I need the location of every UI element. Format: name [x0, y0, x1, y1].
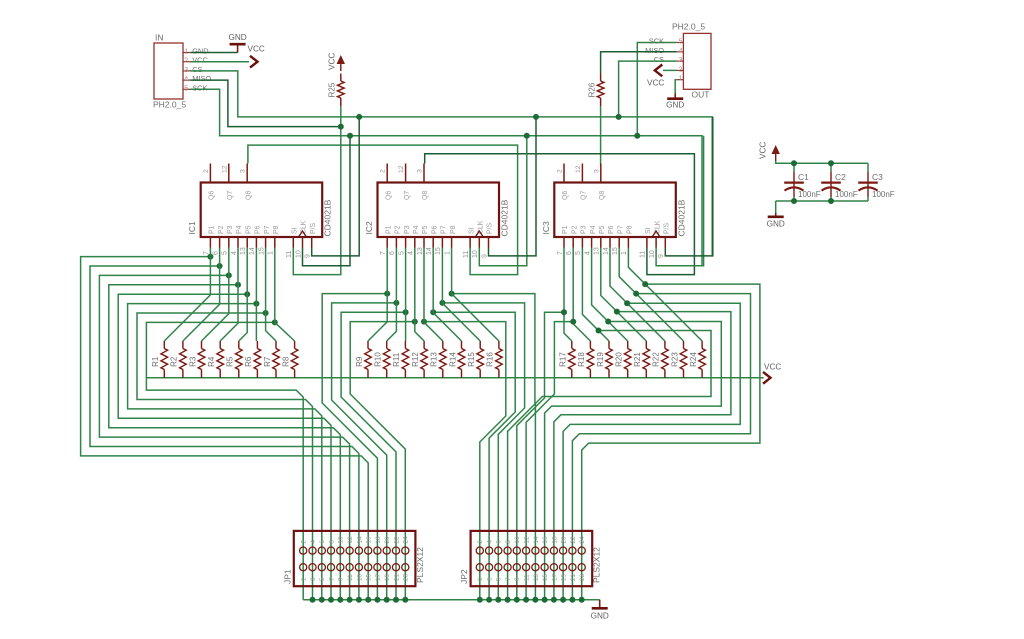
IC2 pin 11 SI [469, 237, 471, 248]
junction dot IC1 P2 [217, 263, 223, 269]
IC1 pin 14 P6 [255, 237, 257, 248]
svg-text:R1: R1 [151, 356, 160, 367]
svg-text:P6: P6 [608, 225, 615, 234]
svg-text:P2: P2 [571, 225, 578, 234]
svg-text:IN: IN [155, 33, 164, 43]
svg-text:100nF: 100nF [835, 190, 858, 199]
svg-text:P2: P2 [218, 225, 225, 234]
JP1 pin 22 / pin 21 [392, 547, 399, 554]
svg-text:R15: R15 [467, 352, 476, 367]
IC1 pin 7 P1 [209, 237, 211, 248]
junction dot IC2 P3 [403, 309, 409, 315]
svg-text:2: 2 [380, 169, 387, 173]
connector IN (PH2.0_5) [154, 43, 183, 99]
wire IC3 P1 row to JP2 col5 [517, 312, 564, 599]
IC1 pin 9 P/S [311, 237, 313, 248]
svg-text:Q7: Q7 [404, 191, 411, 200]
svg-text:9: 9 [658, 254, 665, 258]
svg-text:PH2.0_5: PH2.0_5 [672, 22, 705, 32]
IC3 CD4021B body [554, 183, 676, 238]
svg-text:P/S: P/S [487, 222, 494, 234]
wire R26 -> IC3 Q8 [600, 106, 602, 163]
svg-text:11: 11 [640, 251, 647, 258]
resistor R19 [608, 341, 610, 349]
IC2 pin 6 P2 [395, 237, 397, 248]
wire CLK IC3 -> line C (SCK) [656, 136, 704, 266]
junction dot IC1 P8 [272, 319, 278, 325]
svg-text:R20: R20 [615, 352, 624, 367]
svg-text:13: 13 [240, 247, 247, 255]
junction dot IC2 P8 [449, 291, 455, 297]
JP1 pin 16 / pin 15 [365, 547, 372, 554]
svg-text:24: 24 [579, 536, 586, 544]
IC1 pin 13 P5 [246, 237, 248, 248]
ground symbol at IN [237, 44, 239, 52]
IC2 pin 9 P/S [488, 237, 490, 248]
svg-text:9: 9 [305, 254, 312, 258]
svg-text:4: 4 [408, 251, 415, 255]
svg-text:IC2: IC2 [364, 221, 374, 235]
svg-text:1: 1 [184, 49, 188, 56]
junction dot IC3 P6 [624, 300, 630, 306]
svg-text:3: 3 [417, 169, 424, 173]
svg-text:P7: P7 [617, 225, 624, 234]
wire IC1 P2 to R2 [183, 248, 220, 342]
svg-text:15: 15 [258, 247, 265, 255]
svg-text:19: 19 [561, 573, 568, 581]
wire Q8 IC2 -> SI IC3 (line E) [425, 154, 695, 275]
wire IC1 P1 to R1 [164, 248, 210, 342]
wire IC1 P4 to R4 [220, 248, 238, 342]
IC3 clock triangle [652, 231, 660, 237]
resistor R16 [498, 341, 500, 349]
svg-text:CD4021B: CD4021B [500, 199, 510, 236]
JP2 pin 4 / pin 3 [486, 547, 493, 554]
wire IC3 P2 to R18 [573, 248, 590, 342]
svg-text:15: 15 [366, 573, 373, 581]
svg-text:JP2: JP2 [459, 569, 469, 584]
svg-text:11: 11 [524, 574, 531, 581]
svg-text:22: 22 [393, 536, 400, 544]
svg-text:P1: P1 [562, 225, 569, 234]
wire IC1 P1 row to left bus and JP1 [81, 257, 369, 600]
svg-text:1: 1 [301, 577, 308, 581]
svg-text:VCC: VCC [248, 45, 265, 54]
svg-text:VCC: VCC [764, 363, 781, 372]
IC2 pin 14 P6 [432, 237, 434, 248]
svg-text:R9: R9 [355, 356, 364, 367]
svg-text:P5: P5 [599, 225, 606, 234]
JP2 pin 14 / pin 13 [532, 547, 539, 554]
wire IC2 P1 to R9 [368, 248, 387, 342]
IC1 pin 5 P3 [228, 237, 230, 248]
svg-text:P5: P5 [245, 225, 252, 234]
resistor R4 [219, 341, 221, 349]
wire IN.3 CS -> net CS (line A) [191, 71, 713, 256]
svg-text:P3: P3 [404, 225, 411, 234]
resistor R24 [701, 341, 703, 349]
resistor R21 [645, 341, 647, 349]
svg-text:R21: R21 [633, 352, 642, 367]
svg-text:5: 5 [679, 39, 683, 46]
svg-text:6: 6 [212, 251, 219, 255]
svg-text:Q6: Q6 [562, 191, 569, 200]
svg-text:VCC: VCC [647, 79, 664, 88]
IC3 pin 3 Q8 [600, 164, 602, 183]
svg-text:P8: P8 [450, 225, 457, 234]
svg-text:MISO: MISO [645, 46, 664, 55]
wire IC2 P3 row to JP1 col11 [341, 312, 406, 599]
svg-text:P6: P6 [431, 225, 438, 234]
resistor R23 [683, 341, 685, 349]
svg-text:R26: R26 [587, 82, 596, 97]
wire IC3 P6 row to right bus and JP2 col10 [563, 303, 740, 600]
svg-text:21: 21 [393, 573, 400, 581]
svg-text:12: 12 [221, 165, 228, 173]
svg-text:Q7: Q7 [581, 191, 588, 200]
IC2 pin 12 Q7 [405, 164, 407, 183]
wire IN.2 VCC with arrow [191, 61, 250, 63]
wire IC1 P4 row to left bus and JP1 [109, 285, 340, 600]
svg-text:1: 1 [621, 251, 628, 255]
IC3 pin 2 Q6 [563, 164, 565, 183]
junction dots on line A (CS) [356, 114, 362, 120]
svg-text:16: 16 [366, 536, 373, 544]
wire IC2 P4 row to JP1 col12 [350, 322, 415, 600]
wire P/S IC3 -> line A (CS) [665, 117, 713, 256]
svg-text:3: 3 [679, 57, 683, 64]
IC3 pin 12 Q7 [581, 164, 583, 183]
svg-text:P4: P4 [236, 225, 243, 234]
svg-text:19: 19 [384, 573, 391, 581]
JP2 pin 6 / pin 5 [495, 547, 502, 554]
svg-text:5: 5 [398, 251, 405, 255]
wire IC1 P6 to R6 [255, 248, 257, 342]
IC3 pin 15 P7 [618, 237, 620, 248]
svg-text:14: 14 [356, 536, 363, 544]
wire IC1 P5 to R5 [239, 248, 247, 342]
resistor R8 [294, 341, 296, 349]
OUT pin 3 [676, 60, 683, 62]
connector JP2 PLS2X12 body [471, 531, 593, 586]
wire Q8 IC3 -> R26 (vertical) [600, 164, 602, 166]
wire OUT.3 CS -> line A [619, 61, 677, 117]
IN pin 4 MISO [183, 79, 191, 81]
svg-text:3: 3 [310, 577, 317, 581]
svg-text:6: 6 [496, 540, 503, 544]
IC1 pin 2 Q6 [209, 164, 211, 183]
ground symbol at OUT [674, 94, 676, 99]
junction dot IC2 P5 [421, 319, 427, 325]
svg-text:4: 4 [487, 540, 494, 544]
VCC rail under resistors [146, 377, 762, 379]
svg-text:15: 15 [612, 247, 619, 255]
resistor R9 [367, 341, 369, 349]
JP2 pin 22 / pin 21 [569, 547, 576, 554]
GND rail under JP connectors [303, 599, 600, 601]
JP1 pin 8 / pin 7 [327, 547, 334, 554]
svg-text:17: 17 [551, 573, 558, 581]
svg-text:2: 2 [184, 58, 188, 65]
wire IC3 P6 to R22 [610, 248, 665, 342]
wire IC2 P5 row to JP2 col1 [424, 322, 506, 600]
svg-text:100nF: 100nF [872, 190, 895, 199]
svg-text:100nF: 100nF [798, 190, 821, 199]
junction dot IC3 P2 [570, 319, 576, 325]
svg-text:R22: R22 [652, 352, 661, 367]
svg-text:R6: R6 [244, 356, 253, 367]
IC1 pin 4 P4 [237, 237, 239, 248]
svg-text:4: 4 [584, 251, 591, 255]
svg-text:4: 4 [231, 251, 238, 255]
IC3 pin 10 CLK [655, 237, 657, 248]
svg-text:1: 1 [268, 251, 275, 255]
svg-text:10: 10 [649, 250, 656, 258]
svg-text:R17: R17 [559, 352, 568, 367]
svg-text:6: 6 [319, 540, 326, 544]
svg-text:18: 18 [551, 536, 558, 544]
svg-text:VCC: VCC [759, 142, 768, 159]
junction dot IC1 P6 [253, 301, 259, 307]
svg-text:11: 11 [286, 251, 293, 258]
JP2 pin 2 / pin 1 [476, 547, 483, 554]
svg-text:R11: R11 [392, 352, 401, 367]
wire IC1 P3 row to left bus and JP1 [99, 275, 349, 599]
svg-text:P1: P1 [209, 225, 216, 234]
resistor R17 [571, 341, 573, 349]
IC3 pin 14 P6 [609, 237, 611, 248]
junction dot IC3 P3 [596, 328, 602, 334]
svg-text:13: 13 [417, 247, 424, 255]
svg-text:6: 6 [389, 251, 396, 255]
IC1 pin 10 CLK [302, 237, 304, 248]
resistor R11 [404, 341, 406, 349]
IC2 pin 13 P5 [423, 237, 425, 248]
IC3 pin 4 P4 [591, 237, 593, 248]
svg-text:2: 2 [477, 540, 484, 544]
wire IN.1 GND [191, 52, 238, 54]
IC2 pin 4 P4 [414, 237, 416, 248]
svg-text:12: 12 [398, 165, 405, 173]
svg-text:5: 5 [319, 577, 326, 581]
junction dot IC3 P1 [561, 309, 567, 315]
IN pin 5 SCK [183, 88, 191, 90]
JP1 pin 6 / pin 5 [318, 547, 325, 554]
IN pin 2 VCC [183, 61, 191, 63]
svg-text:GND: GND [666, 101, 684, 110]
junction dot IC1 P3 [226, 272, 232, 278]
wire IN.5 SCK -> net SCK (line C) [191, 89, 703, 265]
svg-text:P8: P8 [273, 225, 280, 234]
wire IC3 P2 row to JP2 col6 [526, 322, 573, 600]
resistor R2 [182, 341, 184, 349]
svg-text:Q7: Q7 [227, 191, 234, 200]
svg-text:3: 3 [240, 169, 247, 173]
svg-text:9: 9 [338, 577, 345, 581]
svg-text:13: 13 [594, 247, 601, 255]
wire IC1 P8 row to left bus and JP1 [146, 322, 303, 599]
svg-text:8: 8 [505, 540, 512, 544]
wire IN.4 MISO -> net MISO (line B) [191, 80, 341, 127]
OUT pin 2 [676, 69, 683, 71]
junction dot IC3 P8 [642, 281, 648, 287]
JP2 pin 10 / pin 9 [513, 547, 520, 554]
IC2 clock triangle [475, 231, 483, 237]
IC1 pin 15 P7 [265, 237, 267, 248]
svg-text:1: 1 [679, 76, 683, 83]
wire IC2 P7 row to JP2 col3 [442, 303, 524, 600]
wire IC2 P8 row to JP2 col4 [452, 294, 535, 600]
resistor R18 [589, 341, 591, 349]
svg-text:13: 13 [356, 573, 363, 581]
JP1 pin 10 / pin 9 [337, 547, 344, 554]
resistor R20 [627, 341, 629, 349]
wire IC3 P8 row to right bus and JP2 col12 [582, 284, 760, 600]
svg-text:P7: P7 [441, 225, 448, 234]
svg-text:14: 14 [603, 247, 610, 255]
JP1 pin 20 / pin 19 [383, 547, 390, 554]
wire IC3 P3 to R19 [582, 248, 609, 342]
wire IC1 P3 to R3 [202, 248, 229, 342]
svg-text:21: 21 [570, 573, 577, 581]
IC3 pin 9 P/S [664, 237, 666, 248]
svg-text:5: 5 [184, 85, 188, 92]
svg-text:P7: P7 [264, 225, 271, 234]
IC2 pin 3 Q8 [423, 164, 425, 183]
JP2 pin 12 / pin 11 [523, 547, 530, 554]
wire IC2 P1 row to JP1 col9 [322, 294, 387, 600]
svg-text:20: 20 [384, 536, 391, 544]
svg-text:P2: P2 [395, 225, 402, 234]
junction dot IC2 P4 [412, 319, 418, 325]
wire Q8 IC1 -> SI IC2 (line D) [248, 145, 518, 275]
wire IC2 P3 to R11 [405, 248, 407, 342]
svg-text:SCK: SCK [649, 37, 664, 46]
svg-text:2: 2 [301, 540, 308, 544]
svg-text:JP1: JP1 [282, 569, 292, 584]
svg-text:10: 10 [295, 250, 302, 258]
resistor R14 [461, 341, 463, 349]
svg-text:R23: R23 [670, 352, 679, 367]
svg-text:GND: GND [192, 47, 208, 56]
svg-text:P6: P6 [255, 225, 262, 234]
junction dot IC2 P1 [384, 291, 390, 297]
svg-text:15: 15 [435, 247, 442, 255]
OUT pin 4 [676, 51, 683, 53]
wire IC2 P7 to R15 [442, 248, 480, 342]
JP1 pin 18 / pin 17 [374, 547, 381, 554]
wire IC3 P4 to R20 [592, 248, 628, 342]
wire IC1 P2 row to left bus and JP1 [90, 266, 359, 600]
wire OUT.1 -> ground [675, 80, 676, 94]
svg-text:2: 2 [203, 169, 210, 173]
JP2 pin 8 / pin 7 [504, 547, 511, 554]
svg-text:C3: C3 [872, 172, 883, 182]
svg-text:C2: C2 [835, 172, 846, 182]
svg-text:7: 7 [380, 251, 387, 255]
svg-text:Q8: Q8 [422, 191, 429, 200]
JP1 pin 4 / pin 3 [309, 547, 316, 554]
junction dots on line C (SCK) [347, 133, 353, 139]
IC3 pin 5 P3 [581, 237, 583, 248]
svg-text:GND: GND [591, 612, 609, 621]
svg-text:CS: CS [192, 65, 202, 74]
svg-text:CD4021B: CD4021B [323, 199, 333, 236]
JP1 pin 2 / pin 1 [300, 547, 307, 554]
svg-text:SI: SI [645, 227, 652, 234]
IC3 pin 11 SI [646, 237, 648, 248]
svg-text:R2: R2 [170, 356, 179, 367]
junction dots JP1 rail [310, 597, 316, 603]
junction dot IC2 P7 [439, 300, 445, 306]
svg-text:IC1: IC1 [187, 221, 197, 235]
svg-text:P/S: P/S [664, 222, 671, 234]
svg-text:P1: P1 [385, 225, 392, 234]
IC1 pin 6 P2 [219, 237, 221, 248]
capacitor C3 100nF [867, 163, 869, 172]
resistor R26 [600, 74, 602, 82]
wire IC2 P6 row to JP2 col2 [433, 312, 515, 599]
svg-text:12: 12 [575, 165, 582, 173]
wire IC1 P6 row to left bus and JP1 [128, 304, 322, 600]
junction dot IC3 P4 [605, 319, 611, 325]
svg-text:C1: C1 [798, 172, 809, 182]
svg-text:R13: R13 [430, 352, 439, 367]
wire CLK IC2 -> line C (SCK) [479, 136, 527, 266]
wire bottom rail of caps [776, 200, 868, 202]
IN pin 3 CS [183, 70, 191, 72]
svg-text:2: 2 [557, 169, 564, 173]
svg-text:10: 10 [338, 536, 345, 544]
wire IC2 P2 to R10 [387, 248, 397, 342]
svg-text:12: 12 [524, 536, 531, 544]
IC2 pin 2 Q6 [386, 164, 388, 183]
JP2 pin 18 / pin 17 [550, 547, 557, 554]
junction dot IC1 P5 [244, 291, 250, 297]
svg-text:9: 9 [481, 254, 488, 258]
svg-text:11: 11 [463, 251, 470, 258]
svg-text:14: 14 [426, 247, 433, 255]
svg-text:CS: CS [654, 55, 664, 64]
JP1 pin 24 / pin 23 [402, 547, 409, 554]
IC1 CD4021B body [201, 183, 323, 238]
svg-text:14: 14 [249, 247, 256, 255]
IC1 pin 11 SI [292, 237, 294, 248]
resistor R12 [423, 341, 425, 349]
svg-text:R14: R14 [448, 352, 457, 367]
svg-text:P5: P5 [422, 225, 429, 234]
OUT pin 1 [676, 79, 683, 81]
svg-text:7: 7 [505, 577, 512, 581]
svg-text:R8: R8 [281, 356, 290, 367]
svg-text:P/S: P/S [310, 222, 317, 234]
svg-text:GND: GND [767, 220, 785, 229]
svg-text:23: 23 [579, 573, 586, 581]
junction dot IC1 P7 [263, 310, 269, 316]
IC2 pin 15 P7 [441, 237, 443, 248]
IC2 pin 10 CLK [478, 237, 480, 248]
svg-text:Q8: Q8 [599, 191, 606, 200]
IC1 pin 12 Q7 [228, 164, 230, 183]
junction dots cap rails [791, 160, 797, 166]
wire IC1 P7 row to left bus and JP1 [137, 313, 313, 600]
svg-text:R16: R16 [486, 352, 495, 367]
IC2 pin 1 P8 [451, 237, 453, 248]
svg-text:24: 24 [403, 536, 410, 544]
resistor R5 [238, 341, 240, 349]
wire IC3 P7 row to right bus and JP2 col11 [572, 294, 750, 600]
svg-text:R18: R18 [577, 352, 586, 367]
